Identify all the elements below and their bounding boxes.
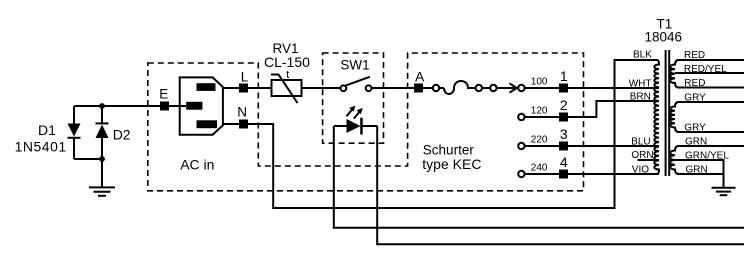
svg-text:BRN: BRN <box>630 91 651 102</box>
node terminal 2 square <box>559 113 568 122</box>
diode D1 <box>68 124 81 160</box>
wire fuse left <box>439 87 444 89</box>
diode D2 <box>96 106 109 159</box>
wire secondary GRY top <box>677 101 744 103</box>
selector contact 120 circle <box>518 114 524 120</box>
wire secondary GRN top <box>677 145 744 147</box>
wire L from connector to RV1 <box>223 87 272 89</box>
svg-text:3: 3 <box>560 126 568 142</box>
lamp neon wire right lead down to bottom bus <box>363 126 744 244</box>
wire terminal 4 to transformer VIO tap <box>568 173 659 175</box>
svg-text:RED: RED <box>684 50 705 61</box>
wire N from connector down and across to transformer BLK <box>223 60 657 208</box>
thermistor RV1 diagonal stroke <box>271 75 298 104</box>
svg-text:GRY: GRY <box>684 92 706 103</box>
svg-text:BLK: BLK <box>633 50 652 61</box>
svg-text:GRY: GRY <box>684 122 706 133</box>
connector pin bottom blade <box>197 120 218 128</box>
svg-text:D2: D2 <box>113 127 131 143</box>
transformer secondary winding C GRN group <box>670 146 679 174</box>
wire A to fuse <box>423 87 433 89</box>
svg-text:18046: 18046 <box>645 29 683 44</box>
svg-text:A: A <box>415 69 425 85</box>
wire bottom link D1-D2 <box>74 158 102 160</box>
wire terminal 3 to transformer BLU tap <box>568 145 659 147</box>
thermistor RV1 body <box>272 80 302 96</box>
svg-text:E: E <box>159 87 168 102</box>
wire 220 to terminal 3 <box>525 145 559 147</box>
svg-text:240: 240 <box>531 162 548 173</box>
svg-text:RED: RED <box>684 78 705 89</box>
node E terminal square <box>160 102 169 111</box>
wire D1 anode lead <box>73 106 75 124</box>
connector J1 AC inlet body <box>180 77 223 134</box>
lamp neon wire left lead down to bottom bus <box>334 126 744 228</box>
svg-text:D1: D1 <box>38 122 56 138</box>
lamp arrow 2 <box>354 108 363 119</box>
fuse holder left circle <box>433 85 439 91</box>
fuse element wave <box>444 81 475 94</box>
wire secondary GRN bottom to ground stem <box>677 173 724 175</box>
svg-text:WHT: WHT <box>629 78 652 89</box>
transformer secondary winding A RED group <box>670 60 679 88</box>
wire SW1 to node A <box>372 87 414 89</box>
svg-text:4: 4 <box>560 154 568 170</box>
wire secondary GRY bottom <box>677 131 744 133</box>
node terminal 4 square <box>559 170 568 179</box>
switch SW1 lever <box>346 77 370 86</box>
svg-text:SW1: SW1 <box>340 57 369 72</box>
svg-text:100: 100 <box>531 76 548 87</box>
svg-text:1N5401: 1N5401 <box>15 138 67 154</box>
switch SW1 right contact <box>366 85 372 91</box>
svg-text:220: 220 <box>531 134 548 145</box>
svg-text:2: 2 <box>560 97 568 113</box>
wire main AC live from D1 junction to connector E pin <box>74 105 186 107</box>
node junction dot top <box>99 103 105 109</box>
svg-text:N: N <box>237 105 247 120</box>
selector wiper arrow shaft <box>497 87 515 89</box>
svg-text:BLU: BLU <box>631 136 650 147</box>
node terminal 1 square <box>559 84 568 93</box>
wire ORN stub tap <box>638 159 660 161</box>
wire terminal 2 jog up to transformer BRN tap <box>568 101 659 117</box>
connector pin earth top blade <box>197 83 216 91</box>
wire secondary RED top <box>677 59 744 61</box>
svg-text:GRN: GRN <box>686 164 708 175</box>
node A terminal square <box>414 84 423 93</box>
wire 240 to terminal 4 <box>525 173 559 175</box>
svg-text:120: 120 <box>531 105 548 116</box>
svg-text:RED/YEL: RED/YEL <box>684 64 727 75</box>
switch SW1 left contact <box>341 85 347 91</box>
connector pin middle blade <box>186 102 202 110</box>
wire secondary RED bottom <box>677 87 744 89</box>
node N terminal square <box>239 120 248 129</box>
ground left <box>89 159 115 196</box>
transformer secondary winding B GRY group <box>670 102 679 132</box>
lamp neon LED triangle <box>347 119 361 133</box>
wire secondary GRN/YEL to ground <box>675 160 724 188</box>
wire fuse to selector wiper <box>482 87 490 89</box>
wire RV1 to SW1 <box>302 87 341 89</box>
node junction dot bottom <box>99 156 105 162</box>
dashed box SW1 <box>323 53 384 143</box>
wire terminal 1 to transformer WHT tap <box>568 87 659 89</box>
svg-text:t: t <box>286 69 289 81</box>
node terminal 3 square <box>559 142 568 151</box>
svg-text:1: 1 <box>560 68 568 84</box>
wire secondary RED/YEL center tap <box>675 72 744 74</box>
wire 100 to terminal 1 <box>525 87 559 89</box>
selector wiper circle <box>490 85 496 91</box>
svg-text:L: L <box>241 70 249 85</box>
selector wiper arrowhead <box>510 83 517 92</box>
transformer core <box>666 50 670 176</box>
ground right <box>712 188 736 195</box>
svg-text:VIO: VIO <box>632 164 649 175</box>
selector contact 100 circle <box>518 85 524 91</box>
lamp arrow 1 <box>347 106 356 117</box>
svg-text:AC in: AC in <box>180 157 214 173</box>
lamp neon cathode bar <box>360 118 363 135</box>
dashed enclosure AC in + Schurter composite outline <box>148 53 584 191</box>
svg-text:type KEC: type KEC <box>422 156 481 172</box>
node L terminal square <box>239 84 248 93</box>
wire 120 to terminal 2 <box>525 116 559 118</box>
svg-text:GRN: GRN <box>685 136 707 147</box>
selector contact 220 circle <box>518 143 524 149</box>
svg-text:ORN: ORN <box>631 150 653 161</box>
svg-text:GRN/YEL: GRN/YEL <box>685 150 729 161</box>
selector contact 240 circle <box>518 171 524 177</box>
fuse holder right circle <box>476 85 482 91</box>
transformer T1 primary winding <box>568 60 659 174</box>
svg-text:CL-150: CL-150 <box>264 54 310 70</box>
